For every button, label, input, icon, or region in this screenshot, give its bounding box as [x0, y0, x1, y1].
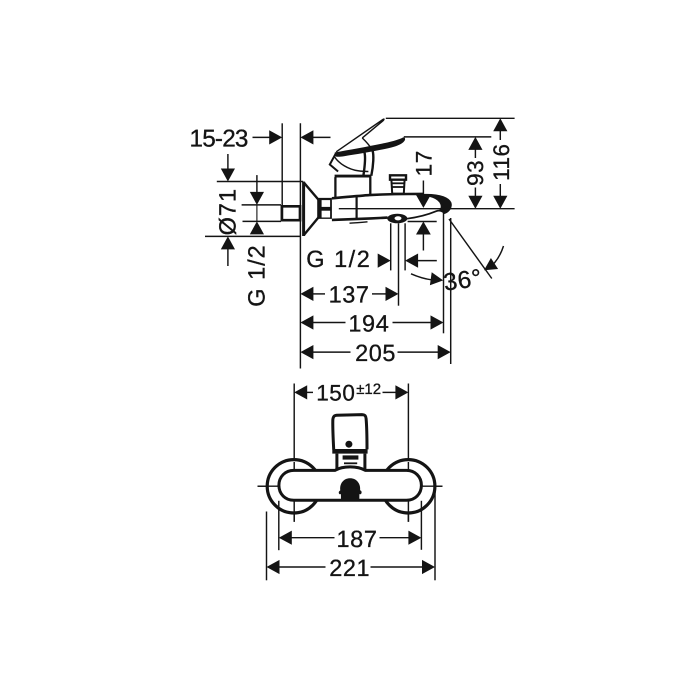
left escutcheon circle [267, 460, 320, 513]
dimension 15-23 [190, 126, 331, 153]
lever neck [363, 151, 373, 176]
wire: top reference line (max handle height) [386, 117, 515, 119]
diverter knob (front view) [339, 478, 362, 501]
wire: aerator right extension line [404, 223, 406, 270]
svg-text:93: 93 [463, 160, 488, 186]
svg-text:116: 116 [489, 144, 514, 181]
svg-text:137: 137 [329, 282, 370, 308]
wire: raised lever neck line [362, 138, 372, 150]
dimension G1/2 inlet [244, 175, 270, 307]
svg-text:205: 205 [355, 340, 396, 366]
wire: pipe-end extension line [281, 123, 283, 205]
wire: 205 extension line [450, 218, 452, 364]
dimension 205 [300, 340, 450, 366]
dimension 116 [489, 118, 514, 208]
right escutcheon circle [382, 460, 435, 513]
wire: spout underside curve [407, 211, 445, 219]
svg-text:36°: 36° [442, 265, 484, 297]
handle neck sides [337, 454, 365, 471]
svg-text:221: 221 [329, 555, 370, 581]
handle collar [332, 449, 367, 454]
wire: horizontal centre line [258, 485, 445, 487]
spout tip (filled curve) [423, 194, 452, 214]
wire: pipe stub top extension line [242, 204, 281, 206]
wire: 194 extension line [443, 207, 445, 334]
svg-text:Ø71: Ø71 [214, 188, 240, 235]
pipe stub through wall [282, 206, 300, 220]
svg-text:±12: ±12 [356, 381, 381, 398]
svg-text:187: 187 [337, 526, 378, 552]
dimension 221 [267, 488, 436, 581]
union nut [318, 198, 332, 219]
faucet body (side view) [332, 194, 424, 220]
wire: aerator left extension line [390, 223, 392, 270]
handle neck rings [343, 458, 359, 468]
wire: flange bottom extension line [205, 235, 301, 237]
svg-text:194: 194 [348, 311, 389, 337]
dimension 93 [463, 137, 488, 209]
wire: lever belly curve [335, 157, 369, 172]
dimension 194 [300, 311, 443, 337]
aerator bump [387, 214, 407, 224]
lever back tail [330, 154, 338, 172]
diverter knob (side view) [390, 175, 406, 193]
body capsule (front view) [279, 467, 422, 500]
svg-text:17: 17 [411, 150, 436, 176]
wire: left centre tick [293, 462, 295, 522]
handle dot [345, 441, 352, 448]
handle (front view) [333, 415, 367, 450]
wire: wall line [299, 123, 301, 368]
dimension 17 [408, 150, 437, 250]
dimension G1/2 outlet [306, 246, 437, 272]
svg-text:G 1/2: G 1/2 [244, 244, 270, 306]
svg-text:G 1/2: G 1/2 [306, 246, 371, 272]
wire: centre line over circles [258, 485, 445, 487]
flange escutcheon cone [304, 182, 319, 236]
dimension 36 degrees [411, 246, 504, 297]
lever handle at rest (filled swoosh) [335, 137, 405, 156]
dimension diameter 71 [214, 154, 240, 266]
wire: flange top extension line [217, 181, 303, 183]
wire: left hole centre line [293, 384, 295, 522]
wire: right hole centre line [407, 384, 409, 522]
lever raised position outline [336, 119, 384, 152]
wire: middle reference line (handle rest height) [404, 136, 492, 138]
wire: spout axis reference line [339, 208, 515, 210]
wire: body under-edge stub [350, 222, 368, 223]
dimension 150 plus-minus 12 [294, 380, 408, 405]
svg-text:15-23: 15-23 [190, 126, 248, 153]
dimension 137 [300, 282, 398, 308]
wire: right centre tick [407, 462, 409, 522]
dimension 187 [279, 501, 422, 552]
cartridge housing [335, 176, 372, 198]
wire: pipe stub bottom extension line [243, 220, 282, 222]
wire: aerator centre extension line [398, 223, 400, 305]
wire: 36 degree spout axis diagonal [449, 219, 492, 279]
svg-text:150: 150 [316, 380, 355, 405]
